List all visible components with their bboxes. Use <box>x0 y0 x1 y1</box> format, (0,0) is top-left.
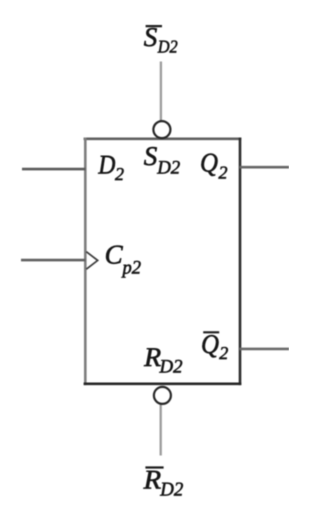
svg-text:D2: D2 <box>156 157 180 178</box>
svg-text:C: C <box>105 240 124 270</box>
svg-text:S: S <box>144 141 158 171</box>
svg-text:2: 2 <box>219 163 228 183</box>
svg-text:S: S <box>144 22 158 52</box>
svg-text:2: 2 <box>115 164 124 184</box>
svg-text:D2: D2 <box>159 479 183 500</box>
svg-text:Q: Q <box>200 148 218 178</box>
svg-text:p2: p2 <box>121 257 142 278</box>
svg-text:D2: D2 <box>157 36 178 56</box>
svg-text:2: 2 <box>219 343 228 363</box>
svg-text:D2: D2 <box>159 357 183 378</box>
svg-text:Q: Q <box>201 329 219 359</box>
svg-text:D: D <box>98 149 116 179</box>
svg-text:R: R <box>143 465 162 495</box>
